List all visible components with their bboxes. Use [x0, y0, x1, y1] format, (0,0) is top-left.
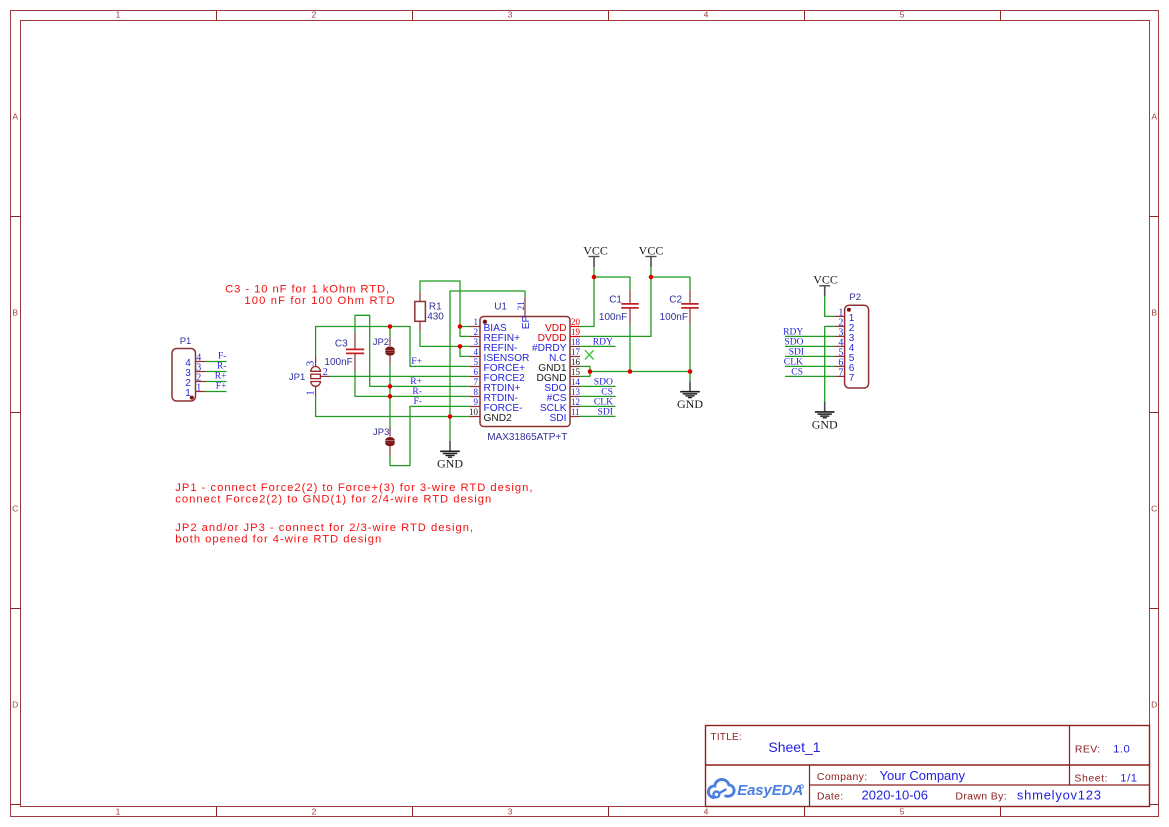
pin 4 ISENSOR: [470, 347, 529, 364]
node junction at 590,371.5: [588, 369, 593, 374]
P2 pin 7: [835, 368, 855, 384]
node junction at 450,416.5: [448, 414, 453, 419]
capacitor C2: [681, 290, 698, 325]
svg-text:C2: C2: [669, 295, 682, 306]
wire P2.2 to GND: [825, 326, 835, 401]
wire GND1 branch: [580, 366, 590, 371]
svg-text:1: 1: [305, 390, 317, 396]
capacitor C1: [621, 290, 638, 325]
svg-text:3: 3: [508, 10, 513, 20]
wire P1 pin2: [206, 381, 227, 383]
node junction at 460,346.4: [458, 344, 463, 349]
svg-text:13: 13: [571, 387, 581, 397]
no-connect X on pin 17: [585, 350, 594, 359]
wire P1 pin1: [206, 391, 227, 393]
P1 pin 2: [185, 373, 205, 389]
ground: [437, 441, 463, 471]
P1 pin 1: [185, 383, 205, 399]
P2 pin 2: [835, 318, 855, 334]
svg-text:5: 5: [900, 807, 905, 817]
wire SDO to P2: [785, 345, 835, 347]
pin 6 FORCE2: [470, 367, 525, 384]
svg-text:5: 5: [474, 357, 479, 367]
svg-text:7: 7: [474, 377, 479, 387]
pin 2 REFIN+: [470, 327, 520, 344]
svg-text:7: 7: [849, 373, 855, 384]
note JP1: [175, 482, 533, 505]
wire DGND branch: [580, 372, 590, 377]
wire P1 pin4: [206, 361, 227, 363]
svg-text:2: 2: [312, 10, 317, 20]
wire CLK to P2: [785, 365, 835, 367]
svg-text:Your Company: Your Company: [880, 768, 966, 783]
svg-text:8: 8: [474, 387, 479, 397]
svg-text:15: 15: [571, 367, 581, 377]
wire R- net C3 bottom to U1.8: [355, 371, 470, 396]
svg-text:C: C: [12, 504, 18, 514]
svg-text:3: 3: [474, 337, 479, 347]
capacitor C3: [346, 333, 364, 371]
svg-text:2020-10-06: 2020-10-06: [862, 788, 929, 803]
pin 13 #CS: [547, 387, 581, 404]
node junction at 390,386.4: [388, 384, 393, 389]
pin 14 SDO: [544, 377, 580, 394]
svg-text:JP1 - connect Force2(2) to For: JP1 - connect Force2(2) to Force+(3) for…: [175, 482, 533, 494]
svg-text:B: B: [12, 308, 18, 318]
svg-text:6: 6: [474, 367, 479, 377]
wire VCC to C2: [651, 277, 690, 290]
wire ISENSOR branch: [460, 346, 470, 356]
svg-text:Company:: Company:: [817, 771, 868, 783]
svg-text:4: 4: [474, 347, 479, 357]
svg-text:Sheet:: Sheet:: [1074, 773, 1108, 785]
svg-text:P2: P2: [849, 292, 861, 303]
svg-text:17: 17: [571, 347, 581, 357]
pin 11 SDI: [550, 407, 580, 424]
svg-text:430: 430: [427, 311, 444, 322]
pin 5 FORCE+: [470, 357, 525, 374]
svg-text:Sheet_1: Sheet_1: [768, 739, 820, 755]
jumper JP1 (open): [311, 356, 330, 396]
svg-text:5: 5: [900, 10, 905, 20]
VCC power flag: [813, 273, 838, 297]
svg-text:GND: GND: [677, 397, 703, 411]
node junction at 390,326.5: [388, 324, 393, 329]
pin 19 DVDD: [538, 327, 581, 344]
svg-text:B: B: [1151, 308, 1157, 318]
svg-text:TITLE:: TITLE:: [711, 732, 743, 743]
wire SDI to P2: [785, 355, 835, 357]
EasyEDA logo: [708, 780, 803, 800]
pin 15 DGND: [537, 367, 581, 384]
svg-text:1: 1: [185, 388, 191, 399]
svg-text:2: 2: [312, 807, 317, 817]
svg-text:shmelyov123: shmelyov123: [1017, 788, 1102, 803]
svg-text:1: 1: [474, 317, 479, 327]
svg-text:16: 16: [571, 357, 581, 367]
svg-text:D: D: [1151, 700, 1157, 710]
op-amp U1 MAX31865ATP+T body: [480, 317, 570, 427]
svg-text:C1: C1: [609, 295, 622, 306]
wire VDD to VCC: [580, 267, 594, 327]
svg-text:F+: F+: [411, 356, 422, 367]
jumper JP2 (closed): [385, 337, 394, 365]
node junction at 390,396.4: [388, 394, 393, 399]
wire C1 bottom: [629, 325, 631, 372]
pin 8 RTDIN-: [470, 387, 518, 404]
pin 12 SCLK: [540, 397, 580, 414]
svg-text:4: 4: [704, 10, 709, 20]
node junction at 630,371.5: [628, 369, 633, 374]
node junction at 460,326.5: [458, 324, 463, 329]
jumper JP3 (closed): [385, 428, 394, 456]
svg-text:21: 21: [516, 301, 526, 310]
svg-text:A: A: [1151, 112, 1157, 122]
svg-text:4: 4: [704, 807, 709, 817]
svg-text:VCC: VCC: [583, 243, 608, 257]
P2 pin 6: [835, 358, 855, 374]
svg-text:20: 20: [571, 317, 581, 327]
svg-text:F-: F-: [413, 396, 422, 407]
P2 pin 4: [835, 338, 855, 354]
svg-text:JP1: JP1: [289, 372, 305, 383]
svg-text:100nF: 100nF: [660, 312, 688, 323]
pin 7 RTDIN+: [470, 377, 520, 394]
svg-text:C3 - 10 nF for 1 kOhm RTD,: C3 - 10 nF for 1 kOhm RTD,: [225, 284, 390, 296]
wire SDO U1.14: [580, 385, 616, 387]
svg-text:REV:: REV:: [1075, 743, 1101, 755]
svg-text:GND: GND: [437, 457, 463, 471]
note C3 value: [225, 284, 396, 307]
wire ground row to C1 C2: [590, 371, 690, 373]
svg-text:14: 14: [571, 377, 581, 387]
wire JP2 top: [389, 327, 391, 337]
wire GND drop U1: [449, 417, 451, 442]
svg-text:7: 7: [838, 368, 843, 379]
svg-text:100nF: 100nF: [324, 357, 352, 368]
svg-text:P1: P1: [180, 336, 192, 347]
svg-text:RDY: RDY: [593, 336, 613, 347]
svg-text:1: 1: [196, 383, 201, 394]
svg-text:F+: F+: [216, 381, 227, 392]
node junction at 690,371.5: [688, 369, 693, 374]
wire DVDD to VCC: [580, 267, 651, 336]
svg-text:JP2: JP2: [373, 337, 389, 348]
svg-text:10: 10: [469, 407, 479, 417]
svg-text:GND2: GND2: [484, 413, 513, 424]
svg-text:19: 19: [571, 327, 581, 337]
svg-text:C: C: [1151, 504, 1157, 514]
pin 9 FORCE-: [470, 397, 523, 414]
svg-text:1/1: 1/1: [1120, 773, 1137, 785]
svg-text:1: 1: [116, 10, 121, 20]
svg-text:A: A: [12, 112, 18, 122]
svg-text:11: 11: [571, 407, 580, 417]
P1 pin 3: [185, 363, 205, 379]
svg-text:JP3: JP3: [373, 427, 389, 438]
wire CS to P2: [785, 375, 835, 377]
wire VCC to C1: [594, 277, 630, 290]
svg-text:9: 9: [474, 397, 479, 407]
node junction at 594,277: [592, 275, 597, 280]
pin 21 EP: [516, 297, 532, 330]
VCC power flag: [639, 243, 664, 267]
wire SDI U1.11: [580, 415, 616, 417]
svg-text:2: 2: [323, 367, 328, 378]
pin 3 REFIN-: [470, 337, 517, 354]
svg-text:CS: CS: [791, 366, 803, 377]
connector P2 body: [845, 305, 869, 388]
wire CS U1.13: [580, 395, 616, 397]
svg-text:both opened for 4-wire RTD des: both opened for 4-wire RTD design: [175, 533, 382, 545]
title block: [706, 726, 1150, 807]
P2 pin 5: [835, 348, 855, 364]
wire GND drop C2: [689, 372, 691, 382]
svg-text:MAX31865ATP+T: MAX31865ATP+T: [487, 432, 567, 443]
svg-text:VCC: VCC: [639, 243, 664, 257]
wire RDY U1.18: [580, 345, 616, 347]
ground: [677, 381, 703, 411]
wire EP net: [450, 291, 525, 417]
wire BIAS node: [420, 281, 460, 327]
pin 18 #DRDY: [532, 337, 581, 354]
pin 17 N.C: [549, 347, 581, 364]
svg-text:EasyEDA: EasyEDA: [737, 782, 803, 799]
svg-text:VCC: VCC: [813, 273, 838, 287]
wire FORCE2 net JP1.2 to U1.6: [330, 375, 470, 377]
wire JP2 bottom to JP3 top: [389, 365, 391, 427]
svg-text:Date:: Date:: [817, 791, 844, 803]
pin 10 GND2: [469, 407, 512, 424]
node junction at 651,277: [649, 275, 654, 280]
svg-text:JP2 and/or JP3 - connect for 2: JP2 and/or JP3 - connect for 2/3-wire RT…: [175, 522, 474, 534]
svg-text:3: 3: [508, 807, 513, 817]
svg-text:SDI: SDI: [550, 413, 567, 424]
ground: [812, 402, 838, 432]
wire C2 bottom: [689, 325, 691, 372]
wire F+ net JP1.3 to U1.5: [316, 327, 470, 367]
wire CLK U1.12: [580, 405, 616, 407]
svg-text:Drawn By:: Drawn By:: [955, 791, 1007, 803]
svg-text:12: 12: [571, 397, 580, 407]
wire R+ net C3 top to U1.7: [355, 315, 470, 386]
svg-text:SDI: SDI: [598, 406, 613, 417]
svg-text:100 nF for 100 Ohm RTD: 100 nF for 100 Ohm RTD: [244, 295, 395, 307]
svg-text:C3: C3: [335, 339, 348, 350]
wire REFIN- node: [420, 331, 470, 347]
svg-text:U1: U1: [494, 302, 507, 313]
connector P1 body: [172, 349, 196, 402]
svg-text:1.0: 1.0: [1113, 743, 1130, 755]
svg-text:D: D: [12, 700, 18, 710]
pin 20 VDD: [545, 317, 581, 334]
resistor R1: [415, 292, 426, 331]
svg-text:100nF: 100nF: [599, 312, 627, 323]
wire GND2 row JP1.1 to U1.10: [316, 397, 470, 417]
svg-text:GND: GND: [812, 417, 838, 431]
pin 1 BIAS: [470, 317, 507, 334]
P2 pin 3: [835, 328, 855, 344]
P2 pin 1: [835, 308, 855, 324]
svg-text:2: 2: [474, 327, 479, 337]
wire RDY to P2: [785, 335, 835, 337]
wire VCC to P2.1: [825, 296, 835, 317]
svg-text:connect Force2(2) to GND(1) fo: connect Force2(2) to GND(1) for 2/4-wire…: [175, 493, 492, 505]
wire REFIN+ branch: [460, 327, 470, 337]
svg-text:18: 18: [571, 337, 581, 347]
svg-text:1: 1: [116, 807, 121, 817]
VCC power flag: [583, 243, 608, 267]
P1 pin 4: [185, 353, 205, 369]
note JP2 JP3: [175, 522, 474, 545]
wire P1 pin3: [206, 371, 227, 373]
svg-text:EP: EP: [521, 316, 532, 330]
pin 16 GND1: [538, 357, 580, 374]
wire F- net JP3 bottom to U1.9: [390, 406, 470, 465]
svg-text:3: 3: [305, 360, 317, 366]
